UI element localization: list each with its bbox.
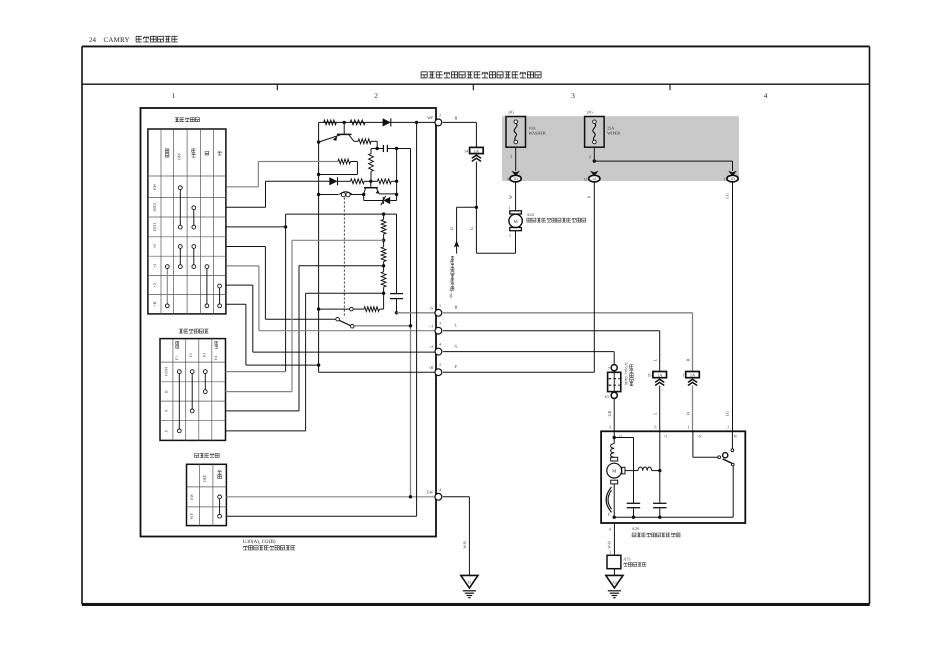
svg-text:A73: A73: [623, 557, 630, 562]
svg-text:1A: 1A: [474, 148, 480, 153]
wire +2 row feeder: [226, 285, 436, 352]
arrow from other circuit: [454, 241, 460, 248]
diagram title 刮水器和清洗器（带自动刮水器系统）: [421, 72, 427, 78]
svg-text:B: B: [455, 305, 458, 310]
wire relay arm to EW junction gray: [354, 326, 410, 497]
wire P net riser: [443, 182, 594, 372]
svg-text:25A: 25A: [607, 125, 614, 130]
svg-text:+2: +2: [429, 344, 433, 349]
washer motor pump A24: [509, 205, 523, 238]
wire INT2 row feeder: [226, 181, 331, 207]
table3 row labels EW WF: [189, 494, 194, 520]
ground A2: [606, 575, 623, 588]
svg-text:4: 4: [764, 92, 768, 100]
table2 intermittent timer grid: [160, 339, 226, 441]
wire branch to right oval: [594, 161, 732, 171]
wire -S output: [397, 312, 437, 314]
svg-text:B: B: [734, 434, 737, 439]
connector oval 3A no11: [589, 175, 600, 182]
zener diode D3: [364, 195, 397, 206]
svg-text:4: 4: [439, 487, 441, 492]
node ground bus motor: [613, 516, 616, 519]
resistor R11: [353, 293, 383, 311]
svg-text:LG: LG: [725, 411, 730, 417]
column ruler ticks: [277, 84, 670, 90]
resistor R7: [377, 179, 391, 184]
pin EW 4: [427, 487, 442, 500]
svg-text:2: 2: [510, 154, 512, 159]
resistor R2 top rail right: [350, 120, 365, 125]
svg-text:I3: I3: [468, 581, 471, 585]
svg-text:INT1: INT1: [152, 223, 157, 232]
svg-text:+2: +2: [152, 283, 157, 287]
junction connector 1A no14: [470, 147, 484, 153]
node C2 to -S rail: [395, 311, 398, 314]
relay block gray background: [502, 116, 739, 181]
svg-text:+B: +B: [152, 301, 157, 306]
svg-text:1: 1: [682, 373, 684, 378]
wire L net: [443, 331, 660, 372]
svg-text:L: L: [653, 358, 658, 361]
node ground bus C4: [658, 516, 661, 519]
svg-text:2: 2: [439, 112, 441, 117]
svg-text:11: 11: [583, 176, 587, 181]
arrow into connector 3D: [511, 171, 520, 177]
label 噪声滤波器 vertical: [630, 365, 634, 369]
pin -S 1: [430, 303, 442, 316]
node chain bottom: [382, 292, 385, 295]
wire oval to washer motor: [515, 182, 517, 211]
svg-text:EW: EW: [427, 489, 433, 494]
svg-text:24: 24: [89, 36, 97, 44]
node EW junction: [409, 495, 412, 498]
node Q2 base: [369, 180, 372, 183]
wire +S row to relay arm: [226, 247, 335, 320]
svg-text:A29: A29: [632, 526, 639, 531]
table3 header 清洗器开关: [195, 453, 199, 457]
wire D2 to R6: [338, 180, 351, 182]
table1 contact OFF EW-INT1: [178, 186, 182, 229]
relay arm pivot: [336, 317, 340, 321]
diode D2: [329, 177, 337, 185]
node chain tap2: [382, 264, 385, 267]
label 接线连接器: [624, 563, 628, 567]
arrow into connector 3D right: [728, 171, 737, 177]
table2 contact F1 COM-F: [177, 370, 181, 433]
wire F row to chain bottom: [226, 293, 384, 431]
wire COM vertical: [226, 214, 286, 372]
wire +B jog to pin: [319, 365, 437, 372]
svg-text:CAMRY: CAMRY: [104, 36, 130, 44]
table2 header 间歇定时开关: [179, 329, 183, 333]
table1 contact LO +1-+B: [205, 265, 209, 308]
relay coil L1: [319, 192, 364, 197]
title band separator line: [82, 83, 870, 85]
table2 column labels F1快速 F2 F3 F4慢速: [175, 341, 218, 360]
wiper switch assembly box U30/J32: [141, 108, 437, 537]
svg-text:OFF: OFF: [176, 152, 181, 160]
wire A73 to ground: [613, 569, 615, 576]
relay fixed contact: [350, 307, 354, 311]
svg-text:1: 1: [172, 92, 176, 100]
wire fuse WIP output: [593, 147, 595, 161]
node top rail R1-R2: [343, 121, 346, 124]
pin WF 2: [427, 112, 442, 125]
wire +2 entry: [613, 431, 615, 443]
node fuse WIP branch: [593, 159, 596, 162]
wire +1 entry to capacitor C4: [659, 431, 661, 503]
wire G down from connector: [475, 162, 477, 208]
wire relay contact rail: [319, 308, 352, 310]
svg-text:OFF: OFF: [202, 474, 207, 482]
svg-text:+S: +S: [697, 434, 701, 439]
svg-text:EW: EW: [189, 494, 194, 500]
transistor Q1: [319, 122, 354, 142]
connector A73: [607, 555, 621, 568]
svg-text:GR: GR: [607, 410, 612, 416]
svg-text:+B: +B: [428, 365, 433, 370]
page header CJK 混合动力车辆: [136, 36, 142, 42]
motor box pin names: [618, 434, 737, 439]
node rail coil: [317, 193, 320, 196]
svg-text:1: 1: [509, 205, 511, 210]
node Q2 emitter: [362, 193, 365, 196]
wire washer WF row riser: [226, 122, 416, 516]
svg-text:INT2: INT2: [152, 203, 157, 212]
svg-text:7: 7: [608, 366, 610, 371]
svg-text:2: 2: [439, 362, 441, 367]
pin +1 3: [429, 321, 442, 334]
svg-text:W: W: [508, 195, 513, 199]
resistor R8 chain: [381, 214, 386, 240]
resistor R5 feedback loop: [319, 159, 358, 174]
svg-text:WASHER: WASHER: [529, 131, 546, 136]
table2 row labels COM B A F: [164, 367, 169, 432]
label 风挡玻璃清洗器马达和泵总成: [527, 218, 531, 222]
wire branch to capacitor C3: [614, 438, 633, 504]
relay dashed actuation line: [343, 198, 345, 318]
svg-text:15: 15: [647, 373, 651, 378]
wire GR to motor pin3: [613, 399, 615, 432]
label 风挡玻璃刮水器开关总成: [243, 546, 247, 550]
svg-text:2: 2: [374, 92, 378, 100]
wire washer EW row to EW pin gray: [226, 496, 436, 498]
wire C1 node down to R7 node: [396, 149, 398, 195]
svg-text:A24: A24: [527, 212, 535, 217]
svg-text:W-B: W-B: [607, 541, 612, 549]
node rail R5 return: [317, 173, 320, 176]
resistor R9 chain: [381, 240, 386, 265]
svg-text:M: M: [513, 219, 518, 225]
table1 row labels EW INT2 INT1 +S +1 +2 +B: [152, 183, 157, 306]
svg-text:3: 3: [571, 92, 575, 100]
wire B row to chain tap1: [226, 240, 384, 391]
wire A row to chain tap2: [226, 266, 384, 411]
svg-text:4: 4: [439, 342, 441, 347]
svg-text:EW: EW: [152, 183, 157, 189]
wire motor to park cam: [613, 484, 615, 517]
svg-text:G: G: [455, 344, 458, 349]
svg-text:1: 1: [724, 176, 726, 181]
svg-text:10: 10: [604, 394, 608, 399]
node R7 right: [395, 180, 398, 183]
svg-text:+1: +1: [664, 434, 668, 439]
connector oval 3D no1: [727, 175, 738, 182]
svg-text:COM: COM: [164, 367, 169, 377]
svg-text:2: 2: [727, 424, 729, 429]
svg-text:A72(A), J32(B): A72(A), J32(B): [624, 363, 628, 387]
svg-text:3D: 3D: [513, 177, 518, 181]
table3 washer switch grid: [187, 464, 227, 525]
wire WF pin to junction connector: [443, 122, 477, 147]
table3 contact ON EW-WF: [218, 495, 222, 518]
node coil L3 to +1 line: [658, 469, 661, 472]
wiper motor assembly box A29: [601, 431, 745, 523]
node rail contact branch: [317, 307, 320, 310]
svg-text:L: L: [653, 412, 658, 415]
svg-text:1: 1: [688, 424, 690, 429]
wire top rail to WF pin: [319, 121, 437, 123]
table1 wiper switch grid: [148, 129, 226, 314]
svg-text:U30(A), J32(B): U30(A), J32(B): [243, 539, 276, 545]
node washer G branch: [475, 206, 478, 209]
svg-text:+S: +S: [152, 244, 157, 248]
choke coil L3 horizontal: [625, 467, 660, 471]
svg-text:1: 1: [439, 303, 441, 308]
wire EW row feeder to R5: [226, 162, 338, 187]
svg-text:3A: 3A: [592, 177, 597, 181]
junction connector 1A no15: [653, 372, 667, 378]
svg-text:A: A: [164, 409, 169, 412]
svg-text:B: B: [455, 115, 458, 120]
svg-text:F1: F1: [175, 356, 179, 360]
svg-text:B: B: [685, 358, 690, 361]
park switch contacts: [693, 431, 734, 466]
svg-text:WIPER: WIPER: [607, 131, 620, 136]
ground bus inside motor: [614, 464, 733, 517]
fuse WIP 25A WIPER: [585, 117, 605, 148]
wire B to motor pin1 gray: [692, 386, 694, 432]
diode D1 to WF: [383, 118, 391, 126]
pin +2 4: [429, 342, 442, 355]
svg-text:B: B: [685, 412, 690, 415]
svg-text:3D: 3D: [730, 177, 735, 181]
svg-text:5: 5: [654, 424, 656, 429]
node capacitor C1 left: [376, 147, 379, 150]
pin +B 2: [428, 362, 442, 375]
node rail Q1 emitter: [317, 140, 320, 143]
svg-text:L: L: [455, 323, 458, 328]
wire motor E pin to A73: [609, 523, 615, 555]
fuse WSH 10A WASHER: [506, 117, 526, 148]
svg-text:3: 3: [609, 550, 611, 555]
svg-text:(IG: (IG: [587, 109, 593, 114]
svg-text:2: 2: [589, 154, 591, 159]
svg-text:+1: +1: [152, 264, 157, 268]
table1 contact AUTO +S-+1: [192, 245, 196, 269]
wire +1 row feeder gray: [226, 266, 436, 331]
resistor R10 chain: [381, 266, 386, 293]
node arm EW drop: [409, 324, 412, 327]
wire fuse WSH output: [515, 147, 517, 171]
table1 header 刮水器开关: [175, 118, 179, 122]
svg-text:LG: LG: [725, 193, 730, 199]
svg-text:1A: 1A: [657, 372, 663, 377]
table3 column labels OFF 打开: [202, 470, 221, 482]
wire L to motor pin5: [659, 386, 661, 432]
wire B net gray: [443, 313, 693, 372]
node ground bus C3: [632, 516, 635, 519]
svg-text:2: 2: [509, 233, 511, 238]
resistor R4 vertical under C1: [369, 149, 378, 182]
wire LG to motor pin2: [732, 182, 734, 431]
wire timing rail: [286, 214, 397, 293]
svg-text:M: M: [612, 469, 617, 475]
resistor R6: [350, 179, 364, 184]
svg-text:10A: 10A: [529, 125, 536, 130]
node chain top: [382, 212, 385, 215]
table1 contact MIST +1-+B: [165, 265, 169, 308]
node INT1 junction: [284, 225, 287, 228]
capacitor C4: [653, 503, 666, 517]
svg-text:3: 3: [609, 424, 611, 429]
svg-text:G: G: [469, 227, 474, 230]
svg-text:-S: -S: [430, 305, 434, 310]
wire +B row feeder: [226, 304, 318, 365]
svg-text:G: G: [449, 227, 454, 230]
table1 contact AUTO INT2-INT1: [192, 206, 196, 229]
wiper motor M: [607, 457, 625, 484]
wire washer pump loop: [476, 207, 515, 253]
table2 contact F3 COM-B: [203, 370, 207, 394]
resistor R1 top rail left: [324, 120, 337, 125]
svg-text:F2: F2: [189, 353, 193, 357]
noise filter A72/J32: [604, 365, 620, 399]
svg-text:W-B: W-B: [462, 541, 467, 549]
wire EW to left ground W-B: [443, 497, 470, 576]
choke coil L2 vertical: [611, 444, 615, 458]
arrow into connector 3A: [590, 171, 599, 177]
wire G net to noise filter: [443, 352, 614, 365]
label 风挡玻璃刮水器马达总成: [632, 533, 636, 537]
transistor Q2: [364, 181, 397, 194]
svg-text:A2: A2: [612, 581, 617, 585]
capacitor C2 timing: [390, 294, 403, 313]
node Q2 collector right: [395, 193, 398, 196]
wire R6 to Q2 base node: [364, 180, 371, 182]
node +2 branch: [613, 436, 616, 439]
wire C1 to EW drop line: [397, 149, 411, 326]
table1 contact OFF +S-+1: [178, 245, 182, 269]
connector oval 3D no4: [510, 175, 521, 182]
table1 contact HI +2-+B: [218, 284, 222, 308]
node +B rail junction: [317, 363, 320, 366]
table1 column labels 点动 OFF 自动 低 高: [165, 149, 221, 160]
node top rail WF washer branch: [415, 121, 418, 124]
svg-text:F3: F3: [202, 353, 206, 357]
svg-text:<BL-3>: <BL-3>: [449, 288, 453, 299]
svg-text:+1: +1: [429, 323, 433, 328]
wire G branch to headlamp circuit: [457, 207, 477, 253]
capacitor C3: [627, 503, 640, 517]
page header text 24 CAMRY hybrid vehicle: [89, 36, 130, 44]
resistor R3 Q1 collector: [354, 139, 377, 149]
svg-text:1A: 1A: [690, 372, 696, 377]
outer frame border: [82, 46, 870, 605]
park switch cam: [606, 487, 611, 512]
relay arm: [339, 320, 354, 328]
ground I3: [461, 575, 478, 588]
capacitor C1: [377, 145, 396, 152]
wire left supply rail: [318, 122, 320, 365]
svg-text:(IG: (IG: [509, 109, 515, 114]
svg-text:B: B: [164, 390, 169, 393]
svg-text:3: 3: [439, 321, 441, 326]
svg-text:WF: WF: [189, 512, 194, 519]
vertical label 大灯清洗器控制电路: [451, 256, 454, 259]
wire INT1 row feeder: [226, 226, 285, 228]
svg-text:F4: F4: [214, 356, 218, 360]
motor box pin numbers: [609, 424, 729, 429]
node capacitor C1 right: [395, 147, 398, 150]
node chain tap1: [382, 239, 385, 242]
table2 contact F2 COM-A: [190, 370, 194, 413]
junction connector 1A no1: [686, 372, 700, 378]
svg-text:WF: WF: [427, 115, 434, 120]
